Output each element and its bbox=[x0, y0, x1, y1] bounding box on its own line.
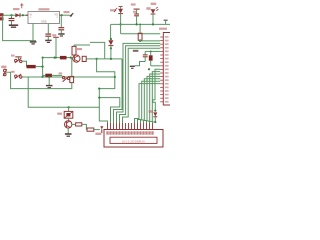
switch S1 bbox=[15, 58, 22, 63]
wire pot to lcd bbox=[94, 129, 100, 131]
label +5V bbox=[64, 11, 70, 13]
wire osc1 bbox=[145, 51, 160, 54]
display LCD1 box with pins bbox=[104, 123, 163, 147]
capacitor C3 bbox=[58, 15, 64, 33]
label S2 bbox=[11, 71, 15, 73]
label D1 bbox=[13, 8, 20, 10]
connector X1 (power input, clipped at left edge) bbox=[0, 13, 4, 20]
resistor R1 filled bbox=[27, 65, 36, 68]
wire edge switch bbox=[6, 72, 42, 88]
resistor R4 filled bbox=[60, 56, 67, 60]
node bus r1 bbox=[42, 66, 44, 68]
wire S1 right bbox=[22, 61, 27, 66]
wire LED2 to rail bbox=[152, 14, 154, 26]
supply vcc T left bbox=[131, 3, 140, 12]
node transistor left bbox=[70, 57, 72, 59]
wire lcd d7 bbox=[144, 76, 161, 123]
capacitor C5 bbox=[143, 55, 148, 62]
wire mclr to mcu bbox=[140, 39, 160, 41]
pin 1 VIN bbox=[26, 12, 33, 19]
wire mclr drop bbox=[139, 24, 141, 34]
wire r2 ground bbox=[48, 77, 50, 85]
led LED1 bbox=[114, 6, 123, 13]
pot wiper arrow bbox=[95, 126, 103, 135]
wire r2 to s3 bbox=[52, 74, 62, 76]
wire R1 to bus bbox=[36, 58, 43, 77]
label S1 bbox=[11, 55, 15, 57]
wire mid rail bbox=[43, 57, 60, 59]
svg-text:VO: VO bbox=[54, 12, 58, 16]
wire vcc drop r6 bbox=[71, 58, 73, 77]
resistor R6 vertical bbox=[70, 76, 74, 82]
display LCD1 screen bbox=[110, 137, 157, 143]
node mid rail a bbox=[54, 57, 57, 59]
node row dot1 bbox=[96, 58, 98, 60]
wire S2 right bbox=[22, 76, 115, 78]
label R3 bbox=[77, 48, 82, 50]
capacitor C1 bbox=[9, 15, 15, 24]
wire rail to transistor bbox=[67, 57, 73, 59]
svg-text:GND: GND bbox=[41, 19, 47, 23]
connector S edge bbox=[1, 66, 7, 76]
svg-text:VI: VI bbox=[30, 12, 33, 16]
diode D3 backlight bbox=[149, 110, 158, 124]
node bus s2 bbox=[42, 76, 44, 78]
wire long bottom bbox=[28, 77, 99, 108]
wire lcd d5 bbox=[138, 81, 161, 123]
wire lcd d6 bbox=[141, 79, 161, 123]
supply vcc T mid bbox=[52, 34, 59, 57]
wire emitter down bbox=[67, 128, 69, 134]
wire lcd p14 bbox=[147, 74, 161, 123]
label osc bbox=[133, 50, 139, 52]
ground for C3 bbox=[58, 34, 64, 36]
wire lcd e bbox=[123, 48, 161, 123]
svg-text:16 X 2 LCD DISPLAY: 16 X 2 LCD DISPLAY bbox=[122, 140, 145, 143]
wire lcd d4 bbox=[135, 84, 161, 123]
node fan junction bbox=[148, 68, 150, 70]
node input junction bbox=[10, 14, 12, 16]
node LED1 rail crossing bbox=[120, 23, 122, 25]
ground crystal bbox=[130, 66, 135, 68]
node r2 gnd bbox=[48, 76, 50, 78]
transistor Q2 bbox=[65, 121, 72, 128]
resistor R3 vertical bbox=[72, 45, 76, 58]
node feed vdd bbox=[98, 97, 100, 99]
switch S2 bbox=[15, 74, 22, 79]
wire lcd rs bbox=[117, 43, 161, 123]
wire box top bbox=[90, 42, 105, 59]
wire lcd rw bbox=[120, 46, 161, 123]
buzzer SG1 bbox=[64, 111, 73, 118]
wire row right bbox=[86, 58, 122, 60]
node row dot2 bbox=[110, 58, 112, 60]
node output junction bbox=[61, 14, 63, 16]
mcu IC2 box with pins bbox=[159, 28, 175, 105]
ground for C2 bbox=[45, 40, 51, 42]
led LED2 bbox=[151, 7, 159, 14]
capacitor C4 bbox=[134, 9, 139, 24]
ground Q2 bbox=[65, 134, 72, 136]
wire lcd feed vdd bbox=[99, 98, 120, 123]
resistor R5 vertical bbox=[82, 56, 86, 61]
pin 2 GND bbox=[41, 19, 47, 23]
transistor Q1 circle bbox=[73, 55, 80, 62]
wire lcd d0 bbox=[114, 59, 123, 123]
wire backlight to pin bbox=[153, 122, 156, 123]
wire vcc drop to diode bbox=[110, 24, 112, 39]
diode D1 bbox=[15, 13, 24, 17]
label IC1 7805 bbox=[39, 8, 50, 10]
resistor R8 pot body bbox=[87, 128, 94, 131]
resistor R9 vertical bbox=[138, 33, 142, 40]
wire buzzer to collector bbox=[68, 118, 70, 121]
label LED2 bbox=[146, 3, 156, 10]
node loop bbox=[98, 76, 116, 90]
ground S row bbox=[46, 86, 53, 88]
supply +5V arrow bbox=[70, 13, 74, 17]
label LED1 bbox=[110, 9, 115, 11]
node C4 rail junction bbox=[136, 23, 138, 25]
wire input to regulator bbox=[4, 14, 29, 16]
wire bus to r2 bbox=[43, 74, 46, 76]
label S3 bbox=[59, 72, 63, 74]
switch S3 bbox=[62, 76, 69, 82]
wire r6 down bbox=[43, 83, 72, 89]
ground bar under regulator bbox=[30, 42, 37, 44]
node diode top bbox=[110, 38, 112, 40]
ground for C1 bbox=[9, 25, 18, 27]
crystal Q3 bbox=[149, 51, 153, 66]
wire buzzer up bbox=[68, 107, 70, 111]
wire lcd p15 bbox=[150, 72, 161, 123]
wire regulator output bbox=[62, 14, 71, 16]
wire lcd p16 bbox=[153, 69, 160, 110]
resistor R7 base bbox=[72, 123, 82, 126]
resistor R2 filled bbox=[45, 74, 52, 78]
node diode bottom bbox=[110, 47, 112, 49]
wire GND pin down bbox=[32, 24, 34, 41]
label SG1 bbox=[57, 113, 62, 115]
wire LED1 to mcu bbox=[121, 33, 161, 35]
wire osc gnd bbox=[135, 62, 146, 66]
capacitor C2 bbox=[45, 24, 51, 40]
node mclr bbox=[139, 40, 141, 42]
supply vcc T s1 bbox=[15, 57, 21, 60]
regulator IC1 box bbox=[28, 12, 60, 24]
wire diode to row bbox=[110, 48, 112, 59]
supply tap on rail bbox=[164, 20, 168, 24]
diode D2 bbox=[108, 40, 113, 48]
node buzzer tap bbox=[68, 106, 70, 108]
supply +12V symbol bbox=[20, 3, 23, 8]
node mid rail left bbox=[42, 57, 44, 59]
wire loop upper bbox=[97, 59, 115, 123]
wire base resistor right bbox=[82, 124, 87, 129]
pin 3 VOUT bbox=[54, 12, 62, 19]
wire R3 top to box bbox=[74, 44, 90, 46]
wire input ground return bbox=[3, 15, 36, 40]
wire osc2 bbox=[151, 65, 161, 67]
wire LED1 down to port bbox=[120, 14, 122, 34]
wire vcc rail bbox=[111, 23, 170, 25]
